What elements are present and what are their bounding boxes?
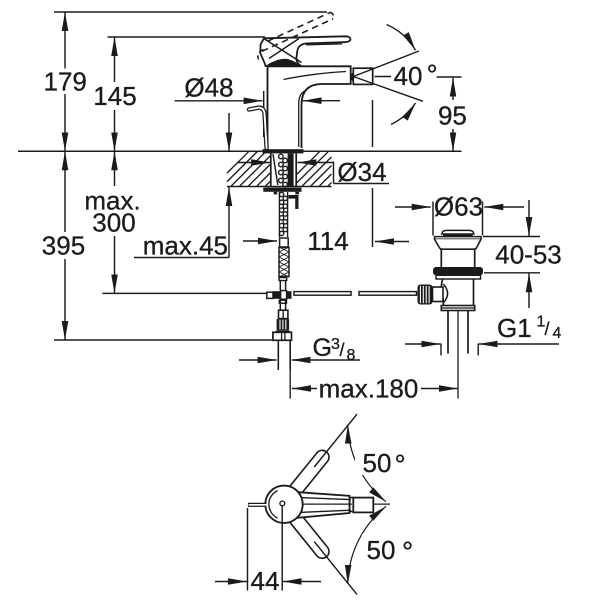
svg-text:4: 4: [553, 325, 562, 342]
dimension 179 vertical line: [64, 12, 66, 69]
dimension Ø63: [395, 206, 431, 208]
svg-text:395: 395: [42, 231, 85, 261]
extension line from aerator tip down to deck: [372, 100, 374, 147]
svg-text:40: 40: [394, 61, 423, 91]
inner highlight line right column: [299, 91, 307, 148]
svg-text:50: 50: [367, 535, 396, 565]
50 deg lower ray: [314, 542, 357, 595]
svg-text:145: 145: [93, 81, 136, 111]
label Ø34 with reference frame: [333, 162, 335, 184]
lever interior diagonal: [265, 39, 302, 63]
top view: spout arm: [298, 492, 350, 518]
extension of pipe edge (for max.180): [289, 370, 291, 399]
svg-text:179: 179: [44, 67, 87, 97]
drain collar: [441, 306, 474, 311]
svg-text:50: 50: [363, 448, 392, 478]
dimension Ø48 leader: [175, 100, 263, 102]
label 50 deg upper: [355, 447, 407, 475]
dimension Ø34 arrows at deck hole: [237, 162, 270, 164]
tee junction with pop-up rod: [267, 292, 273, 298]
svg-text:°: °: [427, 59, 438, 90]
mounting washer/nut below deck: [263, 188, 301, 192]
raised handle position (dashed): [268, 12, 331, 41]
dome taper to cylinder: [435, 239, 482, 249]
40 deg upper ray: [353, 51, 419, 77]
svg-text:max.180: max.180: [319, 374, 419, 404]
50 deg lower arc: [348, 506, 386, 584]
dimension G1 1/4: [440, 344, 442, 356]
drain dome cap: [442, 230, 474, 234]
inner spout curve: [284, 72, 347, 80]
countertop surface line: [18, 150, 462, 152]
knob connector: [433, 287, 444, 302]
deck hatching right: [296, 152, 331, 186]
shank inner wedge: [273, 154, 278, 185]
svg-text:°: °: [402, 536, 413, 567]
50 deg upper ray: [314, 414, 357, 467]
dimension 145 vertical line: [114, 37, 116, 82]
top view: faucet body circle: [265, 486, 302, 523]
joint box between rod sections: [280, 238, 289, 247]
40 deg upper arc with arrow: [387, 25, 416, 51]
svg-text:Ø48: Ø48: [184, 73, 233, 103]
drain upper cylinder: [440, 249, 442, 267]
svg-text:40-53: 40-53: [495, 240, 562, 270]
drain lever knob (knurled): [418, 285, 433, 305]
dimension 95 vertical line: [437, 76, 462, 78]
extension line base plate left (for Ø48): [263, 91, 265, 137]
50 deg upper arc: [348, 425, 386, 502]
svg-text:/: /: [545, 319, 550, 339]
rubber gasket (black): [433, 267, 483, 275]
svg-text:G1: G1: [497, 313, 532, 343]
dimension max.300 vertical line: [114, 151, 116, 186]
braided hose upper: [279, 248, 289, 277]
top view: lever stub pointing left: [248, 503, 267, 507]
neck below tee: [279, 300, 286, 303]
Ø63 extension lines: [432, 202, 434, 236]
svg-text:44: 44: [251, 566, 280, 596]
coupler box: [279, 310, 288, 318]
supply nut: [273, 332, 292, 340]
aerator at spout end: [353, 68, 372, 84]
svg-text:Ø63: Ø63: [434, 192, 483, 222]
svg-text:8: 8: [347, 347, 356, 364]
top view: spout neck: [350, 498, 354, 512]
rod guide bracket: [289, 195, 299, 199]
dimension 40-53: [483, 236, 540, 238]
hose neck above tee: [279, 276, 281, 290]
dimension 114 arrows: [243, 240, 277, 242]
lever base black wedge: [266, 59, 301, 66]
knurled supply fitting: [277, 319, 290, 331]
pop-up rod horizontal right segment: [359, 292, 417, 296]
top view: inner ring arc: [269, 491, 278, 518]
svg-text:300: 300: [92, 208, 135, 238]
top view: handle arm upper (50 deg): [286, 448, 331, 500]
svg-text:95: 95: [438, 100, 467, 130]
base plate escutcheon: [263, 149, 304, 153]
tailpipe centerline: [457, 311, 459, 399]
drain body below: [441, 279, 443, 306]
40 deg lower arc with arrow: [391, 103, 416, 125]
threaded rod in shank (bead chain): [279, 154, 288, 187]
top view: center mark: [280, 501, 285, 506]
top view: aerator square: [353, 498, 373, 513]
dark bar in shank: [288, 154, 294, 187]
tailpipe: [447, 311, 449, 354]
dimension G3/8 arrows: [239, 359, 277, 361]
internal pivot arc: [443, 284, 447, 303]
svg-text:max.45: max.45: [143, 231, 228, 261]
pop-up rod horizontal left segment: [294, 292, 351, 296]
svg-text:/: /: [340, 340, 345, 360]
svg-text:G: G: [313, 334, 332, 362]
dimension max.45 (deck thickness): [228, 113, 230, 151]
40 deg lower ray: [353, 77, 423, 102]
G3/8 supply pipe: [277, 341, 279, 371]
threaded rod below deck: [278, 192, 280, 237]
svg-text:°: °: [395, 449, 406, 480]
dimension 395 vertical line: [64, 151, 66, 232]
label 50 deg lower: [362, 534, 418, 562]
lever blade underside line: [306, 44, 342, 45]
faucet body outline (side view): [268, 66, 351, 148]
drain dome disc: [435, 237, 482, 240]
svg-text:Ø34: Ø34: [337, 157, 386, 187]
extension line from aerator below deck (for 114): [372, 188, 374, 247]
extension line at hose end (for 395): [54, 339, 272, 341]
lever handle (solid, closed position): [260, 36, 350, 66]
extension line at pop-up rod (for max.300): [103, 292, 267, 294]
top view: centerline through spout: [303, 503, 352, 505]
junction node dark blob: [350, 73, 355, 81]
extension line top (raised handle height, for 179): [54, 11, 327, 13]
top view: handle arm lower (50 deg): [286, 509, 331, 561]
mounting shank walls: [270, 153, 272, 186]
pop-up rod hook bracket left of body: [249, 108, 267, 148]
top view: spout interior lines: [299, 498, 351, 500]
dimension max.180: [292, 388, 317, 390]
deck hatching left: [227, 152, 271, 186]
flange under gasket: [436, 275, 481, 279]
svg-text:114: 114: [307, 226, 348, 256]
dimension 44: [247, 508, 249, 591]
deck bottom line: [227, 186, 332, 188]
extension line at lever top (for 145): [108, 36, 266, 38]
